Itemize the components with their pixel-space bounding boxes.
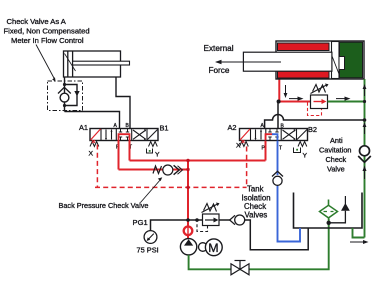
svg-text:T: T [279,146,282,152]
svg-text:B1: B1 [160,124,169,133]
svg-text:Check: Check [326,155,347,164]
svg-text:75 PSI: 75 PSI [137,246,159,255]
svg-text:Valve: Valve [327,165,345,174]
svg-text:M: M [208,241,218,255]
svg-text:Valves: Valves [245,211,268,220]
svg-text:B2: B2 [308,125,317,134]
svg-text:Tank: Tank [247,185,264,194]
svg-text:Cavitation: Cavitation [319,146,351,155]
svg-text:Force: Force [209,66,230,75]
svg-text:Y: Y [303,153,308,160]
svg-text:External: External [204,44,234,53]
svg-text:A1: A1 [79,123,88,132]
svg-text:X: X [236,143,241,150]
svg-text:X: X [89,151,94,158]
svg-text:Anti: Anti [330,136,343,145]
svg-text:Fixed, Non Compensated: Fixed, Non Compensated [4,27,90,36]
svg-text:A2: A2 [228,123,237,132]
svg-text:Meter In Flow Control: Meter In Flow Control [11,36,84,45]
svg-text:Back Pressure Check Valve: Back Pressure Check Valve [59,201,149,210]
svg-text:Y: Y [155,152,160,159]
svg-text:PG1: PG1 [133,218,148,227]
svg-text:Check Valve As A: Check Valve As A [7,17,67,26]
